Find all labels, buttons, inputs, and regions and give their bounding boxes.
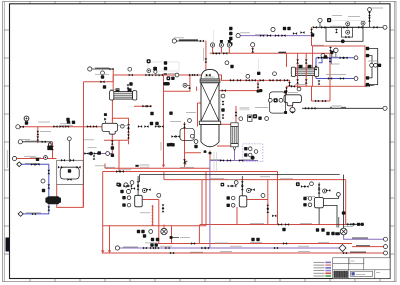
valve v1 hv2 <box>162 208 165 212</box>
red arrow a <box>101 250 104 253</box>
wire red riser2 <box>220 47 222 54</box>
wire red column top riser <box>205 41 207 71</box>
wire red box-unit U <box>57 185 83 208</box>
valve v3 t1 <box>318 184 321 188</box>
left margin block <box>6 238 10 252</box>
vent circle box in <box>346 30 350 34</box>
valve red243 a <box>191 242 195 245</box>
square below blob a <box>167 143 170 146</box>
wire red drum outlet <box>111 134 113 157</box>
square rb2a b <box>171 77 174 80</box>
valve pump blob a <box>171 135 175 138</box>
line end circle purple right <box>384 237 388 241</box>
square loop c1 <box>284 90 287 93</box>
wire red pump feed bc <box>163 225 165 229</box>
wire red drum pump down <box>292 105 294 113</box>
title block logo <box>352 272 355 275</box>
dome vent valves <box>206 74 211 77</box>
valve y75.5 a <box>145 74 149 77</box>
wire red x113 y75-y81 <box>112 75 114 82</box>
wire blue left circuit <box>21 164 49 196</box>
valve y126 d <box>87 125 91 128</box>
valve y126 b <box>59 125 63 128</box>
wire black stub2 <box>338 217 340 228</box>
wire red purple-feed riser <box>311 27 313 46</box>
wire red y86.3 left <box>287 85 313 87</box>
purple circle start <box>115 246 119 250</box>
wire red reboiler riser <box>235 106 237 123</box>
valve y80 g <box>230 79 234 82</box>
valve y224 right <box>347 223 351 226</box>
wire black x343.6 drop <box>343 175 345 229</box>
wire black v1 gauge <box>68 141 70 163</box>
label smudge 6 <box>255 34 267 36</box>
square tag top right <box>327 18 331 22</box>
label red253 right <box>350 251 366 253</box>
wire red x83.5 long vertical <box>83 82 85 208</box>
wire black x139.5 drop <box>139 175 141 182</box>
dark bar v3 <box>335 232 340 235</box>
valve x37.8 a <box>36 131 39 135</box>
valve y27 d <box>358 26 362 29</box>
valve v1 t3 <box>146 188 150 191</box>
valve purple bt b <box>150 247 154 250</box>
instrument y80 a <box>246 74 250 78</box>
valve x277 c <box>272 214 276 217</box>
label smudge b24 <box>228 179 239 181</box>
valve col right <box>222 101 225 105</box>
wire red HX1 outlet <box>111 100 113 123</box>
wire red y168.2 run <box>105 167 210 169</box>
valve loop v3 <box>127 134 130 138</box>
blue end circle top <box>354 56 358 60</box>
flash drum small <box>102 123 118 134</box>
dark label y75 <box>164 73 168 75</box>
wire red dome side outlet <box>219 75 290 86</box>
valve boxunit in r <box>76 166 80 169</box>
instrument v2 L2 <box>231 204 235 208</box>
valve y80 c <box>260 79 264 82</box>
label smudge 17 <box>312 44 324 46</box>
valve y75.5 d <box>129 74 133 77</box>
label rb1 bottom <box>326 74 346 76</box>
line end circle red246 <box>384 245 388 249</box>
valve blue v1 <box>47 170 50 174</box>
vertical label x161 <box>160 142 162 151</box>
valve y75.5 a2 <box>149 74 153 77</box>
valve purple 3 <box>275 34 279 37</box>
square v3 L1 <box>303 197 306 200</box>
valve v3 p1 <box>301 185 305 188</box>
valve purple y160 a <box>220 159 224 162</box>
red arrow b <box>108 250 111 253</box>
wire red x197.5 vertical <box>197 103 199 127</box>
square below blob b <box>171 143 174 146</box>
label purple small <box>88 147 97 149</box>
wire black top right y27 <box>313 26 370 28</box>
label smudge b8 <box>318 241 329 243</box>
title block grid <box>334 271 349 278</box>
wire red main run y75.5 <box>113 74 201 76</box>
square blue <box>42 189 45 192</box>
wire red y168 stub <box>104 164 106 169</box>
column C1 <box>199 69 220 154</box>
instrument x102 <box>101 71 105 75</box>
square rb2 a <box>147 59 151 63</box>
square col left a <box>194 145 197 148</box>
valve y106 a <box>142 105 146 108</box>
instrument rb1 right b <box>374 63 378 67</box>
label smudge b3 <box>230 245 242 247</box>
box unit enclosure <box>57 160 83 184</box>
square x330 <box>324 55 327 58</box>
wire red v2 drop <box>236 207 238 225</box>
square circle pair <box>153 67 157 71</box>
label smudge b12 <box>348 16 360 18</box>
label smudge 2 <box>118 125 130 127</box>
square stack1 b <box>229 32 232 35</box>
instrument blue dot <box>44 156 48 160</box>
pump P2 under drum <box>290 107 295 113</box>
square bt f <box>155 243 158 246</box>
square rb1 right c <box>378 64 381 67</box>
wire red x163.9 drop <box>163 172 165 180</box>
instrument rb1 top <box>334 49 338 53</box>
label smudge 18 <box>210 159 222 161</box>
gray dash top right <box>332 20 367 22</box>
wire red riser4 <box>252 47 254 53</box>
valve purple 6 <box>300 31 304 34</box>
label smudge 12 <box>240 159 252 161</box>
wire red y179.6 run <box>164 179 346 181</box>
square bc b <box>141 230 144 233</box>
gray standpipe b <box>216 152 218 172</box>
wire red col stub left <box>196 87 198 92</box>
square bt b <box>156 238 159 241</box>
valve y126 a <box>53 125 57 128</box>
wire red box B <box>201 180 203 225</box>
square loop tag <box>274 98 278 102</box>
valve v1 t1 <box>137 181 140 185</box>
wire red y152.8 elbow <box>185 152 202 154</box>
valve v2 t3 <box>251 188 255 191</box>
instrument v3 circle <box>337 193 341 197</box>
label y75 gray <box>168 73 177 75</box>
wire red column feed <box>198 102 202 104</box>
vessel V2 <box>239 196 247 207</box>
title block <box>333 258 390 279</box>
instrument dot rb2 <box>147 69 151 73</box>
black box inner <box>341 27 352 37</box>
label smudge b19 <box>110 89 120 91</box>
line end circle red253 <box>384 251 388 255</box>
wire black top feed <box>176 40 200 42</box>
instrument v2 L1 <box>231 196 235 200</box>
instrument col right a <box>221 94 225 98</box>
pump P1 <box>45 196 61 204</box>
valve y126 e <box>93 125 97 128</box>
square v2 tag <box>221 183 225 187</box>
svg-text:xxxxx xxxx: xxxxx xxxx <box>356 274 366 276</box>
label smudge b5 <box>220 251 232 253</box>
vent circle riser3 <box>227 40 231 47</box>
wire black mid y174.6 <box>140 174 340 176</box>
label smudge 10 <box>215 242 228 244</box>
valve purple 2 <box>267 34 271 37</box>
instrument circle purple start <box>236 34 240 38</box>
square v2 y229 <box>282 228 285 231</box>
valve y108 b <box>311 107 315 110</box>
wire black rb1 ext <box>365 85 375 86</box>
wire black y27 to circle <box>370 26 384 28</box>
heat exchanger HX2 <box>291 65 318 76</box>
label overhead dark <box>279 51 287 53</box>
square x163 a <box>150 112 153 115</box>
red arrow x163 <box>162 165 165 168</box>
wire red v1 out <box>142 199 159 201</box>
drum left loop <box>269 92 285 113</box>
square stack1 c <box>229 37 232 40</box>
square y80 <box>257 72 260 75</box>
square v3 b2 <box>321 228 324 231</box>
wire red RB3 left inner <box>109 226 111 252</box>
purple pump diamond <box>339 245 346 252</box>
wire black circle feed y69 <box>92 68 113 70</box>
square y224 a <box>357 223 360 226</box>
blue label bottom <box>26 212 41 214</box>
valve box bottom <box>345 36 349 39</box>
valve purple bt g <box>205 247 209 250</box>
blue diamond top <box>17 162 22 167</box>
valve purple y160 c <box>239 159 243 162</box>
wire black v3 riser <box>318 183 320 198</box>
wire black y141.8 left <box>20 141 52 143</box>
valve rb1 blue2 <box>340 56 344 59</box>
valve feed left <box>109 68 113 71</box>
valve overhead c <box>223 52 227 55</box>
square v1 L1 <box>122 196 125 199</box>
vent circle box top <box>346 22 350 26</box>
square rb1 r1 <box>366 47 369 50</box>
valve overhead b <box>216 52 220 55</box>
square v2 L1 <box>227 196 230 199</box>
valve y106 b <box>147 105 151 108</box>
valve y101 b <box>322 100 326 103</box>
valve x267 b <box>266 209 269 213</box>
wire red drum loop bottom <box>104 139 129 141</box>
wire red y90.6 run <box>219 90 259 92</box>
square boxunit <box>68 169 71 172</box>
valve purple 5 <box>293 32 297 35</box>
valve y127 a <box>20 125 24 128</box>
instrument col left <box>194 140 198 144</box>
label smudge b7 <box>250 241 262 243</box>
wire red y224.5 run <box>200 224 346 226</box>
blue label top <box>25 162 40 164</box>
feed circle left <box>88 67 92 71</box>
valve reboiler riser <box>235 112 238 116</box>
square bt d <box>256 238 259 241</box>
valve v2 y224 b <box>285 223 289 226</box>
instrument cl1 b <box>126 189 130 193</box>
square x186 <box>169 112 172 115</box>
square rb1 r3 <box>366 76 369 79</box>
instrument dash c <box>254 150 258 154</box>
dot rb2a edge <box>189 87 191 89</box>
label smudge b2 <box>160 245 172 247</box>
square col dome <box>230 65 233 68</box>
vessel V1 <box>135 195 143 207</box>
instrument v2 top b <box>247 188 251 192</box>
square cl1 b <box>120 190 123 193</box>
blue drop rb1 <box>330 58 332 65</box>
square x112 b <box>111 154 114 157</box>
valve y171 a <box>116 170 120 173</box>
valve y126 h <box>155 125 159 128</box>
valve blue bottom <box>32 213 36 216</box>
valve top right riser1 <box>368 12 371 16</box>
label feed left <box>95 67 109 69</box>
label smudge b18 <box>170 121 181 123</box>
wire purple reboiler <box>234 151 236 161</box>
label smudge 5 <box>216 52 229 54</box>
instrument stem x185 <box>184 161 188 165</box>
wire purple right bottom <box>344 235 385 239</box>
label smudge b21 <box>84 139 94 141</box>
label dome <box>205 76 215 78</box>
wire red x158.8 down <box>158 200 160 244</box>
square x112 a <box>111 146 114 149</box>
square y126 right a <box>66 118 69 121</box>
valve blue top <box>31 163 35 166</box>
square v1 tag <box>116 183 120 187</box>
wire red x311.5 lower <box>311 86 313 101</box>
valve purple bt f <box>201 247 205 250</box>
square dash a <box>244 147 247 150</box>
wire red v2 out <box>247 199 268 201</box>
wire red x184.5 lower <box>184 153 186 168</box>
wire red x52.5 vertical <box>52 142 54 159</box>
instrument rb1 b <box>334 48 338 58</box>
pump rb2a <box>163 82 170 86</box>
valve purple 4 <box>281 34 285 37</box>
instrument rb2a <box>183 83 190 87</box>
instrument dash b <box>248 153 252 157</box>
square blue top <box>36 158 39 161</box>
valve rb1 blue2b <box>343 56 347 59</box>
valve purple bt d <box>274 247 278 250</box>
pump dark x343 <box>342 211 346 215</box>
valve x258 <box>257 84 260 88</box>
instrument v1 L2 <box>127 203 131 207</box>
dashed signal cluster <box>243 144 263 162</box>
wire red RB3 right A <box>205 172 207 226</box>
valve purple small b <box>94 152 98 155</box>
square x163 b <box>169 143 172 146</box>
gray standpipe a <box>213 152 215 172</box>
label smudge b22 <box>20 139 30 141</box>
instrument reb a <box>265 117 269 121</box>
pump y90 <box>259 89 263 92</box>
valve boxunit bottom <box>67 178 71 181</box>
instrument dash a <box>248 147 252 151</box>
vent circle riser2 <box>219 40 223 47</box>
valve drum top a <box>285 87 288 91</box>
wire black v2 riser <box>241 176 243 196</box>
wire red small box RB2a <box>164 75 190 91</box>
valve purple rb1 <box>310 29 313 33</box>
label smudge b10 <box>344 226 353 228</box>
pump cross bc <box>161 228 167 234</box>
instrument reboiler riser <box>239 117 243 121</box>
blue end circle bottom <box>354 77 358 81</box>
square v3 tag <box>296 182 300 186</box>
valve purple 1 <box>260 34 264 37</box>
valve y253 right <box>343 252 347 255</box>
label smudge 15 <box>104 166 115 168</box>
label smudge 20 <box>280 178 293 180</box>
valve y27 left a <box>313 26 317 29</box>
label smudge 11 <box>190 251 203 253</box>
valve feed top <box>200 40 204 43</box>
wire blue RB1 bottom <box>316 78 355 80</box>
wire red x163.5 vertical <box>163 91 165 166</box>
valve red253 a <box>170 252 174 255</box>
label smudge 21 <box>300 223 312 225</box>
valve x184 b <box>183 159 186 163</box>
valve rb1 blue1b <box>323 56 327 59</box>
square rb1 r4 <box>366 83 369 86</box>
vent circle right box <box>361 21 365 27</box>
label smudge b17 <box>186 112 196 114</box>
square v2 L2 <box>227 204 230 207</box>
square riser a <box>164 61 167 64</box>
wire blue pump outlet <box>23 205 49 214</box>
valve x267 a <box>266 205 269 209</box>
wire red hx2 riser c <box>286 54 288 68</box>
label rb1 top <box>330 63 340 65</box>
valve black riser x336 <box>335 29 338 33</box>
valve hx2r c <box>296 79 299 83</box>
valve hx1 top <box>127 84 130 88</box>
valve purple bt c <box>165 247 169 250</box>
valve x289 drop <box>288 82 291 86</box>
label smudge 8 <box>210 178 224 180</box>
square v3 b3 <box>326 232 329 235</box>
wire red x199.4 drop <box>198 225 200 244</box>
label x37 branch <box>40 131 51 133</box>
dark bit x258 <box>257 90 260 93</box>
wire black v1 riser <box>137 176 139 196</box>
wire red x277.5 vertical <box>277 172 279 225</box>
valve y27 left b <box>321 26 325 29</box>
valve y80 d <box>269 79 273 82</box>
valve top right riser2 <box>368 17 371 21</box>
label bc <box>180 236 190 238</box>
valve blue v2 <box>47 184 50 188</box>
valve purple bt a <box>143 247 147 250</box>
valve y126 c <box>65 125 69 128</box>
instrument v3 L2 <box>308 203 312 207</box>
square v3 L2 <box>303 203 306 206</box>
label smudge b1 <box>295 84 306 86</box>
valve loop v2 <box>127 128 130 132</box>
label smudge b27 <box>95 165 105 167</box>
pump box bottom <box>341 39 345 43</box>
valve y75.5 b <box>155 74 159 77</box>
feed circle top <box>172 39 176 43</box>
valve x330 <box>329 58 332 62</box>
